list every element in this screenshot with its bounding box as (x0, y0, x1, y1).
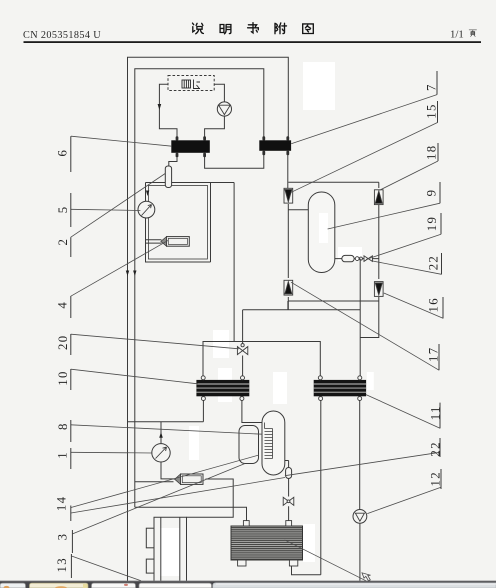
svg-text:1: 1 (56, 451, 70, 459)
svg-text:14: 14 (55, 496, 69, 511)
svg-text:12: 12 (429, 471, 443, 486)
svg-text:10: 10 (56, 370, 70, 385)
svg-text:8: 8 (56, 422, 70, 430)
svg-text:1/1: 1/1 (450, 29, 464, 41)
svg-text:18: 18 (425, 145, 439, 160)
svg-text:19: 19 (425, 216, 439, 231)
svg-text:3: 3 (56, 533, 70, 541)
svg-text:16: 16 (427, 297, 441, 312)
svg-text:9: 9 (425, 189, 439, 197)
svg-text:2: 2 (56, 238, 70, 246)
svg-text:15: 15 (425, 103, 439, 118)
svg-text:17: 17 (427, 347, 441, 362)
svg-text:5: 5 (56, 206, 70, 214)
svg-text:4: 4 (56, 301, 70, 309)
svg-text:6: 6 (56, 149, 70, 157)
svg-text:22: 22 (427, 255, 441, 270)
svg-text:13: 13 (55, 557, 69, 572)
svg-text:20: 20 (56, 335, 70, 350)
svg-text:CN 205351854 U: CN 205351854 U (23, 30, 101, 41)
